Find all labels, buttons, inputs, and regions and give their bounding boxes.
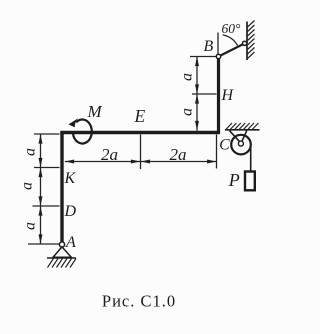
svg-text:a: a — [22, 222, 39, 230]
svg-text:a: a — [22, 148, 39, 156]
svg-text:60°: 60° — [222, 21, 242, 36]
svg-text:D: D — [64, 203, 77, 220]
svg-text:K: K — [64, 170, 77, 187]
svg-text:C: C — [219, 137, 230, 154]
svg-text:E: E — [134, 106, 146, 126]
svg-text:2a: 2a — [101, 145, 118, 164]
svg-text:2a: 2a — [170, 145, 187, 164]
svg-text:B: B — [204, 38, 214, 55]
svg-text:M: M — [87, 102, 103, 121]
svg-text:a: a — [179, 73, 196, 81]
svg-text:H: H — [221, 87, 235, 104]
svg-text:P: P — [228, 170, 240, 190]
svg-text:A: A — [65, 234, 76, 251]
svg-text:Рис. С1.0: Рис. С1.0 — [102, 292, 176, 311]
svg-text:a: a — [179, 108, 196, 116]
svg-text:a: a — [19, 182, 36, 190]
